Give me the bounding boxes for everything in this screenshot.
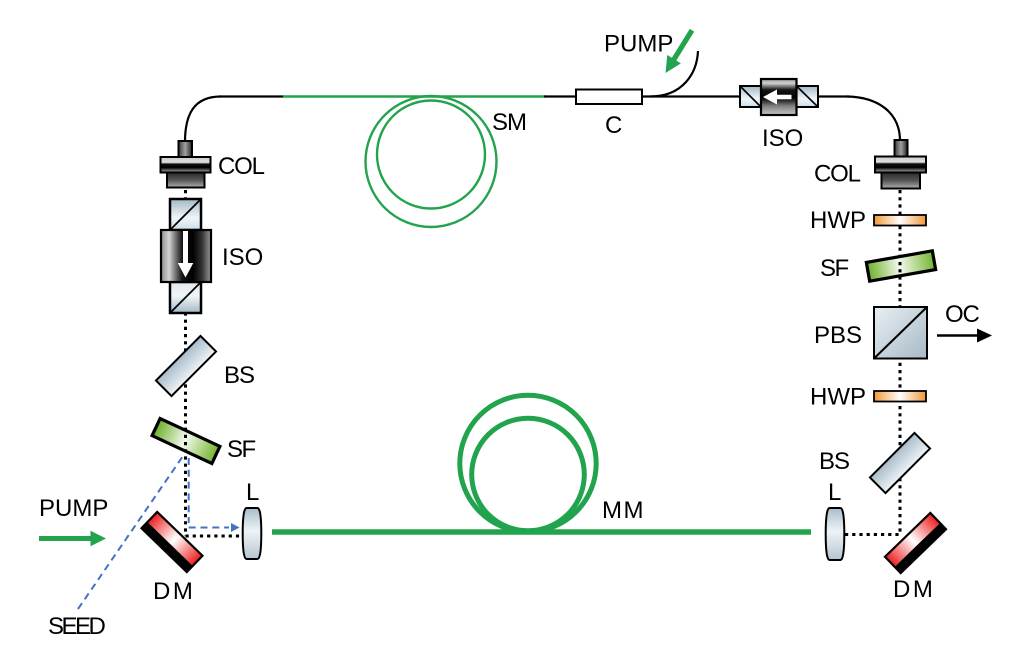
- svg-text:L: L: [246, 479, 259, 506]
- OC output arrow: [937, 334, 979, 337]
- svg-text:DM: DM: [893, 576, 935, 603]
- isolator ISO (left): [161, 199, 211, 313]
- svg-text:SM: SM: [492, 109, 526, 136]
- svg-text:SEED: SEED: [48, 613, 106, 640]
- svg-text:OC: OC: [945, 301, 979, 328]
- pump input fiber curve: [650, 51, 698, 97]
- svg-text:BS: BS: [224, 362, 254, 389]
- BS (left): [156, 336, 216, 396]
- svg-text:SF: SF: [227, 436, 256, 463]
- svg-text:COL: COL: [218, 153, 265, 180]
- lens L (right): [826, 508, 845, 560]
- svg-text:L: L: [828, 479, 841, 506]
- collimator COL (left): [161, 141, 211, 188]
- isolator ISO (top): [740, 79, 818, 115]
- svg-text:ISO: ISO: [762, 125, 803, 152]
- wire: combiner to ISO(top): [642, 95, 741, 97]
- wire: black fiber SM to combiner: [544, 95, 577, 97]
- svg-text:ISO: ISO: [222, 244, 263, 271]
- wire: fiber curve COL(left) to top line: [185, 97, 221, 143]
- collimator COL (right): [875, 140, 926, 189]
- beam dotted horizontal to lens L (left): [186, 535, 244, 538]
- HWP (right upper): [874, 215, 926, 226]
- beam dotted vertical (right column): [899, 190, 902, 535]
- MM fiber line: [272, 529, 811, 535]
- svg-text:DM: DM: [153, 578, 195, 605]
- svg-text:BS: BS: [819, 448, 849, 475]
- MM fiber coil outer loop: [460, 395, 596, 531]
- svg-text:HWP: HWP: [810, 384, 866, 411]
- beam dotted vertical (left column): [184, 190, 187, 536]
- SM fiber coil inner loop: [377, 101, 485, 209]
- combiner C: [576, 90, 642, 105]
- svg-text:SF: SF: [820, 255, 849, 282]
- SM fiber coil outer loop: [366, 96, 497, 227]
- SF (left): [152, 418, 220, 463]
- pump arrow (left): [39, 531, 106, 547]
- seed beam dashed diagonal: [78, 456, 183, 609]
- svg-text:COL: COL: [814, 161, 861, 188]
- HWP (right lower): [874, 391, 926, 402]
- pump arrow (top): [659, 26, 699, 77]
- BS (right): [870, 433, 930, 493]
- seed beam dashed horizontal with arrow: [189, 527, 229, 529]
- svg-text:PUMP: PUMP: [39, 495, 108, 522]
- wire: top black fiber: [219, 95, 284, 97]
- DM (left): [141, 512, 202, 572]
- svg-text:MM: MM: [602, 497, 645, 524]
- PBS cube: [874, 307, 927, 359]
- MM fiber coil inner loop: [472, 418, 585, 531]
- wire: SM green fiber: [283, 95, 545, 97]
- svg-text:PBS: PBS: [814, 322, 862, 349]
- beam dotted horizontal lens to DM (right): [845, 533, 902, 536]
- lens L (left): [243, 508, 262, 559]
- svg-text:HWP: HWP: [810, 207, 866, 234]
- spectral filter SF (right): [866, 251, 935, 281]
- DM (right): [885, 513, 946, 573]
- wire: ISO(top) to COL(right): [818, 95, 849, 97]
- svg-text:PUMP: PUMP: [604, 31, 673, 58]
- svg-text:C: C: [605, 112, 622, 139]
- seed beam dashed vertical: [188, 458, 190, 523]
